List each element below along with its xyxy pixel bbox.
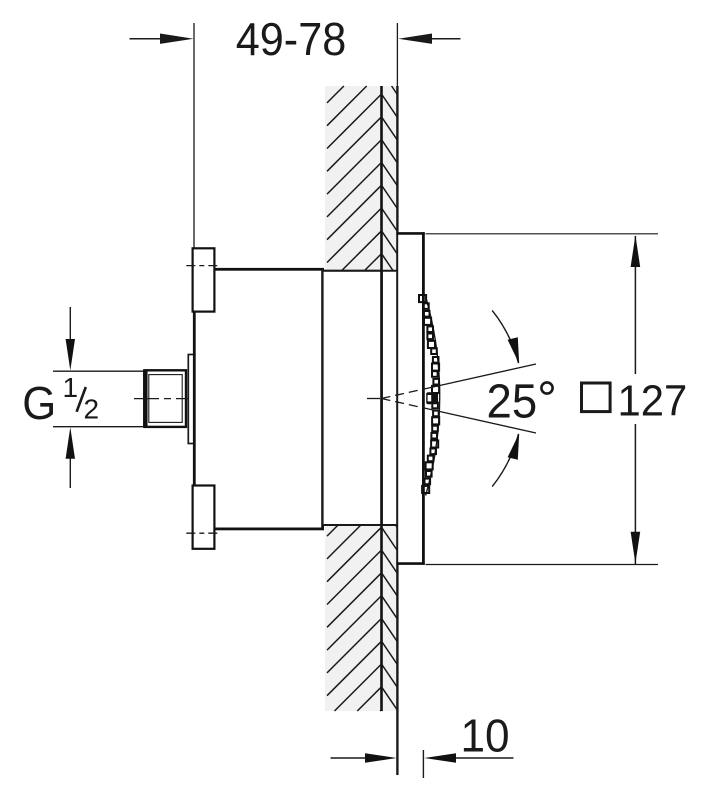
svg-text:25: 25: [487, 374, 538, 427]
square symbol: [582, 383, 611, 412]
spray axis centerline dash at apex: [367, 398, 380, 400]
wall plaster tint upper: [325, 86, 397, 271]
face plate top edge: [396, 232, 424, 235]
wall hatch lower: [327, 525, 397, 711]
fraction slash: [77, 387, 86, 412]
G 1/2 dimension upper arrowhead: [66, 339, 75, 371]
10 dim right arrowhead: [424, 753, 456, 763]
degree symbol: [541, 382, 552, 393]
square-127 bottom arrowhead: [631, 532, 641, 564]
wall opening top edge: [323, 270, 398, 272]
bottom tab screw axis (dash-dot): [186, 532, 219, 534]
square-127 text gap: [609, 374, 691, 424]
G 1/2 dimension upper line: [69, 307, 71, 345]
10 dim left line: [331, 757, 372, 759]
25 degree lower arrowhead: [508, 433, 520, 460]
25 degree upper arrowhead: [508, 337, 520, 364]
dimension 49-78 dimension line left segment: [130, 38, 167, 40]
square-127 top arrowhead: [631, 235, 641, 267]
svg-text:127: 127: [618, 376, 688, 425]
10 dim left arrowhead: [365, 753, 397, 763]
dimension 49-78 dimension line right segment: [426, 38, 461, 40]
10 dim extension line (face plate front): [422, 750, 424, 778]
svg-text:2: 2: [84, 393, 100, 424]
G 1/2 dimension lower line: [69, 452, 71, 488]
central nozzle notch: [428, 395, 432, 401]
body back flange: [188, 355, 194, 444]
threaded nipple thick end face: [143, 370, 148, 428]
square-127 dimension line: [634, 236, 636, 564]
face plate front fill: [398, 234, 422, 562]
shower inlet pipe top line: [53, 370, 145, 372]
spray face arc: [426, 297, 440, 496]
face plate bottom edge: [396, 562, 424, 565]
wall plaster tint lower: [325, 525, 397, 711]
square-127 top extension line: [426, 233, 659, 235]
spray nozzle chain: [419, 295, 439, 493]
G 1/2 dimension lower arrowhead: [66, 427, 75, 459]
10 dim right line: [450, 757, 514, 759]
top tab screw axis (dash-dot): [186, 265, 219, 267]
dimension 49-78 right arrowhead: [398, 34, 432, 44]
wall surface line (also right extension of 49-78 and left extent of 10 dim): [396, 23, 398, 87]
bottom mounting tab: [193, 486, 215, 549]
shower main body: [194, 269, 322, 529]
wall opening bottom edge: [323, 524, 398, 526]
25 degree lower arc leader: [492, 434, 518, 487]
spray angle lower line (dashed near apex): [382, 399, 429, 409]
svg-text:49-78: 49-78: [236, 13, 347, 66]
shower inlet pipe bottom line: [53, 426, 145, 428]
thread centerline (dash-dot): [134, 398, 209, 400]
dimension 49-78 left arrowhead: [160, 34, 194, 44]
central nozzle (filled): [426, 392, 438, 404]
25 degree upper arc leader: [492, 310, 518, 363]
svg-text:1: 1: [63, 372, 79, 403]
in-wall mounting box: [323, 271, 382, 525]
wall hatch upper: [327, 86, 397, 271]
top mounting tab: [193, 248, 215, 311]
svg-text:10: 10: [460, 710, 509, 762]
in-wall box right face (thick): [380, 271, 383, 525]
spray angle upper line (dashed near apex): [382, 388, 429, 398]
threaded nipple outer body: [145, 370, 187, 427]
dimension 49-78 left extension line: [193, 23, 195, 248]
svg-text:G: G: [22, 377, 56, 429]
face plate right edge: [422, 232, 425, 564]
threaded nipple inner thread line: [149, 375, 182, 423]
wall rough-surface / chevron crease line: [380, 86, 383, 711]
square-127 bottom extension line: [426, 564, 659, 566]
